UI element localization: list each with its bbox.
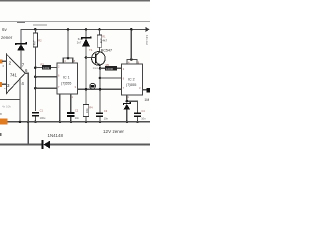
svg-text:IC 1: IC 1 [63,76,70,80]
svg-text:1mA: 1mA [93,66,99,70]
wire left input feed [0,99,20,101]
zener D2 middle [77,28,91,104]
wire bottom line [0,144,42,146]
wire pin4 down to ground rail [19,79,21,122]
wire top supply rail [21,28,146,30]
junction emitter col on 89 wire [99,88,102,91]
svg-text:C3: C3 [104,109,108,113]
faint header rule [0,20,150,22]
zener D1 6v [16,42,27,55]
svg-text:C1: C1 [40,108,44,112]
junction D2 col / 89 wire [85,88,88,91]
svg-text:100k: 100k [43,66,50,70]
junction emitter node [99,67,102,70]
header dash left [17,22,25,24]
wire emitter down [99,66,101,112]
svg-text:C2: C2 [75,109,79,113]
diode D4 1N4148 [41,133,63,149]
IC1 pins 4+8 tie loop [63,28,76,63]
resistor R6 vertical under D2 col [83,105,93,124]
zener D3 12V under IC2 [124,95,131,123]
junction D2/base wire [85,56,88,59]
tiny label tick pin2 [2,65,4,67]
wire to IC2 pin6 [100,77,122,79]
IC2 pin3 wire out right [142,89,150,91]
resistor R5 4k7 above transistor [97,28,107,51]
svg-text:4x 10k: 4x 10k [2,105,11,109]
wire op-amp output to down column [25,73,28,144]
resistor R8 orange bottom left (cut) [0,119,8,125]
tiny edge speck [0,133,1,136]
resistor R7 value box emitter to IC2 [100,63,122,71]
capacitor C5 [134,109,146,123]
svg-text:zener: zener [1,35,13,40]
wire base from zener column [86,57,91,59]
svg-text:(7)555: (7)555 [61,81,71,85]
svg-text:T1: T1 [89,48,93,52]
tiny label tick pin3 [4,87,6,89]
svg-text:BC547: BC547 [101,49,112,53]
junction pin4 col ground [19,121,22,124]
wire rail corner down to D1 [20,29,22,44]
capacitor C2 100u [32,108,46,123]
svg-text:4k7: 4k7 [33,40,37,45]
resistor R2 orange (pin3, cut at edge) [0,82,2,87]
svg-text:2v7: 2v7 [77,40,82,44]
IC1 555 [57,63,78,99]
junction output/ground rail [27,121,30,124]
wire ground rail [8,121,150,123]
op-amp U1 741 [7,54,28,93]
resistor R4 value box to IC1 pin2 [36,62,57,69]
wire IC1 right pin to IC2 row [77,88,121,90]
wire to IC1 pin left bottom [35,87,56,89]
svg-text:(7)555: (7)555 [126,83,136,87]
junction at 76.8 [34,76,37,79]
IC2 555 [122,64,143,99]
svg-text:12v out: 12v out [145,35,149,45]
IC2 pins 4+8 tie loop [127,28,140,64]
svg-text:100u: 100u [40,116,46,120]
load blob right edge [147,88,150,93]
top edge border [0,0,150,2]
resistor R3 4k7 vertical (under rail) [33,28,43,111]
junction emitter col 77.9 [99,77,102,80]
svg-text:1M: 1M [144,98,149,102]
arrow supply output [146,27,150,32]
svg-text:R4: R4 [89,105,93,109]
svg-text:10n: 10n [141,117,146,121]
svg-text:IC 2: IC 2 [128,77,135,81]
wire jog D3 to C5 [127,101,138,112]
capacitor C3 under IC1 [67,94,80,123]
junction R3 column at R4 wire [34,66,37,69]
svg-text:12V zener: 12V zener [103,129,124,134]
svg-text:100R: 100R [106,67,113,71]
wire pin2 [2,60,6,62]
svg-text:10n: 10n [104,116,109,120]
junction at 88.2 [34,87,37,90]
svg-text:4k7: 4k7 [102,38,107,42]
svg-text:1N4148: 1N4148 [48,133,64,138]
svg-text:C4: C4 [141,109,145,113]
wire pin7 to zener D1 [20,55,22,70]
transistor Q1 BC547 [89,48,112,67]
meter glyph on 89.3 wire [90,83,96,89]
svg-text:10n: 10n [75,116,80,120]
svg-text:6v: 6v [2,27,8,32]
wire pin3 [2,83,7,85]
header dash mid [33,24,47,26]
svg-text:R2: R2 [38,39,42,43]
capacitor C4 under emitter col [96,109,109,123]
wire to IC1 pin6 [35,76,56,78]
resistor R1 orange (pin2, cut at edge) [0,59,3,63]
IC1 pin to ground [59,94,61,122]
svg-text:x: x [0,112,2,116]
svg-text:741: 741 [10,73,18,78]
